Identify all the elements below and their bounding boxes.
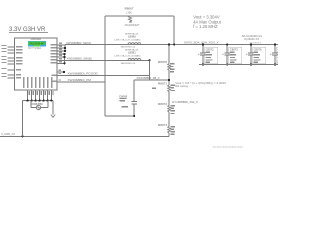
wire SW(B) net [65,59,150,61]
svg-text:C8069: C8069 [119,94,128,98]
svg-text:SN10508-BG: SN10508-BG [29,41,44,45]
resistor R8072 [168,105,171,112]
capacitor C8069 [132,102,137,116]
node dot chain top [168,43,170,45]
wire left pin stub y47 [8,46,15,48]
snubber top wire [105,15,174,17]
R8073 value block [171,126,176,135]
wire right pin DH1 [57,44,65,46]
ground return rail [0,135,169,137]
R8070 value block [170,63,175,72]
capacitor C8073 [222,43,242,65]
svg-text:R8070: R8070 [158,60,167,64]
svg-text:3.3V G3H VR: 3.3V G3H VR [9,27,46,33]
svg-text:L8080: L8080 [128,35,136,39]
wire left pin stub y78 [8,77,15,79]
wire PGOOD [57,74,150,76]
svg-text:Rd tuong: Rd tuong [175,84,188,88]
wire chain mid [168,70,170,85]
svg-text:f = 1.25 MHZ: f = 1.25 MHZ [193,24,218,29]
wire left pin stub y58 [8,57,15,59]
wire right pin DH2 [57,47,65,49]
wire merge bar phase B [64,54,66,63]
wire left pin stub y64 [8,63,15,65]
svg-text:+: + [198,52,200,56]
vertical bus to feedback chain [168,45,170,64]
svg-text:XW1668BDI_SW(B): XW1668BDI_SW(B) [67,57,92,61]
node dot y72 [63,71,65,73]
svg-text:XAKNXNKC-M: XAKNXNKC-M [121,62,136,65]
svg-text:1.33K: 1.33K [126,11,133,14]
wire left pin stub y70 [8,69,15,71]
svg-text:+: + [246,52,248,56]
svg-text:OV T 9.54A: OV T 9.54A [28,47,41,50]
left pin net label texts [2,45,7,77]
bottom pins stub x27.6 [27,90,29,101]
resistor R8067 [128,16,131,22]
svg-text:C8073: C8073 [230,47,238,51]
svg-text:AN(1026)KZT: AN(1026)KZT [125,24,140,27]
svg-text:L8081: L8081 [128,51,136,55]
resistor R8070 [168,64,171,71]
node dot SW(B) corner [149,59,151,61]
junction dots ground bus [27,100,53,102]
wire chain [168,112,170,126]
ground symbol arrow [51,101,55,118]
wire PM [57,81,105,83]
capacitor C8076 [246,43,266,65]
svg-text:HY1668BDI_SW_X: HY1668BDI_SW_X [172,100,198,104]
svg-text:XX-XXX-XXX-XXXXX-XXX: XX-XXX-XXX-XXXXX-XXX [213,146,243,149]
svg-text:XW1668BDI_SW(A): XW1668BDI_SW(A) [66,41,91,45]
svg-text:XW1668BDI_FB_X: XW1668BDI_FB_X [137,76,160,80]
R8071 value block [152,85,175,92]
wire right pin DH3 [57,50,65,52]
bottom pins stub x31.6 [31,90,33,101]
snubber right vertical wire [173,16,175,45]
node junction dots phase A [64,47,66,52]
wire FB tap [134,79,169,81]
right pin names inside box [51,44,57,82]
wire left pin stub y61 [8,60,15,62]
inductor L8080 [128,43,141,45]
wire C8069 bottom horizontal [105,115,134,117]
U806D highlighted part number chip [28,41,46,46]
svg-text:R8067: R8067 [125,7,134,11]
svg-text:C8072: C8072 [206,47,214,51]
wire right pin DL4 [57,62,65,64]
bottom pins stub x35.6 [35,90,37,101]
bottom pins stub x39.6 [39,90,41,101]
bottom pins stub x51.3 [50,90,52,101]
op-amp U806D main regulator IC box [15,38,58,90]
bottom pin names inside box (vertical) [23,77,52,88]
bottom pin number smudges [29,91,54,95]
node junction dots phase B [63,53,65,65]
wire stub pin y72 [57,71,65,73]
pin numbers above right stubs [59,43,63,81]
svg-text:XW1668BDI_PM: XW1668BDI_PM [68,78,92,82]
snubber vertical wire from SW(A) [104,16,106,116]
capacitor C8077 [270,43,290,65]
resistor R8073 [168,126,171,133]
resistor R8071 [168,85,171,92]
wire left pin stub y75 [8,74,15,76]
wire SW(B) vertical drop [149,60,151,80]
wire left pin stub y53 [8,52,15,54]
svg-text:1-MH-CTA-O-XX-J(10AAK): 1-MH-CTA-O-XX-J(10AAK) [114,55,141,58]
svg-text:R8072: R8072 [158,102,167,106]
node dot rail [21,135,23,137]
wire SW(A) net [65,44,278,46]
wire right pin DL2 [57,56,65,58]
top right note text [193,15,222,30]
node dot C8069 bottom [133,115,135,117]
node dot snubber to bus [173,43,175,45]
svg-text:X_A080_XX: X_A080_XX [1,132,15,136]
wire left pin stub y50 [8,49,15,51]
wire output bottom bus [199,64,278,66]
bottom pins stub x43.6 [43,90,45,101]
svg-text:R8071: R8071 [158,82,167,86]
inductor L8081 [128,59,141,61]
capacitor C8072 [198,43,218,65]
svg-text:XAKNXNKC-M: XAKNXNKC-M [121,46,136,49]
wire right pin DL3 [57,59,65,61]
wire ground bus under box [23,100,54,102]
svg-text:XW1668BDI_PGOOD: XW1668BDI_PGOOD [68,72,99,76]
wire chain [168,92,170,106]
svg-text:1-MH-CTA-O-XX-J(10AAK): 1-MH-CTA-O-XX-J(10AAK) [114,39,141,42]
wire merge bar phase A [64,45,66,52]
svg-text:XQ-BAKF-XX: XQ-BAKF-XX [244,38,259,41]
node dot FB tap [168,79,170,81]
svg-text:+: + [222,52,224,56]
wire chain bottom [168,133,170,136]
bottom pins stub x47.6 [47,90,49,101]
wire right pin DL1 [57,53,65,55]
svg-text:U806D: U806D [31,37,42,41]
svg-text:+: + [270,52,272,56]
wire PGOOD vertical to C8069 [133,80,135,102]
C8069 value block [120,98,129,108]
fuse F8069 circle symbol [31,101,48,110]
svg-text:C8076: C8076 [254,47,262,51]
title underline [9,32,48,34]
left pin names inside box [16,46,23,78]
R8072 value block [171,105,176,114]
svg-text:XXV3_SDA_S3H_XDX_X: XXV3_SDA_S3H_XDX_X [184,41,219,45]
wire left vertical to rail [22,101,24,137]
svg-text:R8073: R8073 [158,123,167,127]
